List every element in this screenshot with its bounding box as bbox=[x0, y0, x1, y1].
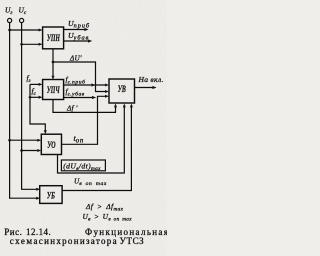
label Δf' bbox=[66, 105, 78, 113]
block УО bbox=[41, 134, 61, 154]
label ΔU' bbox=[69, 55, 82, 63]
wire Uс to УО input 2 bbox=[22, 149, 42, 152]
block УБ bbox=[40, 186, 62, 204]
junction on Uг bus at УПН input bbox=[8, 29, 11, 32]
wire Uс to УПН input 2 bbox=[22, 43, 43, 46]
svg-text:УТСЗ: УТСЗ bbox=[120, 236, 145, 246]
junction on Uс bus at УО input bbox=[20, 149, 23, 152]
wire Uг to УПН input 1 bbox=[10, 29, 43, 32]
wire fг.приб to УВ input 1 bbox=[64, 83, 109, 86]
wire УПН to УПЧ vertical bbox=[52, 49, 55, 80]
label Uприб bbox=[68, 19, 90, 29]
caption line 1 bbox=[4, 227, 169, 237]
svg-text:УО: УО bbox=[47, 140, 56, 151]
wire output Uприб (arrow stub) bbox=[64, 28, 89, 31]
label fг.убав bbox=[66, 88, 85, 98]
junction on Uг bus at УО input bbox=[8, 139, 11, 142]
label Uубав bbox=[68, 31, 89, 41]
svg-text:УБ: УБ bbox=[47, 190, 55, 201]
label condition Δf > Δf max bbox=[85, 202, 124, 213]
wire УБ output to УВ bottom input 3 bbox=[62, 103, 133, 190]
block УПН bbox=[43, 27, 64, 49]
wire output Uубав (arrow stub) bbox=[64, 39, 93, 42]
label fс bbox=[32, 88, 37, 98]
wire f line vertical (frequency taps down to УО top) bbox=[30, 84, 47, 134]
svg-text:УВ: УВ bbox=[118, 84, 126, 95]
label УО bbox=[47, 140, 56, 151]
label fг.приб bbox=[66, 76, 86, 86]
wire fс into УПЧ bbox=[30, 96, 43, 99]
wire Δf' from УПЧ bottom to УВ bottom input 1 bbox=[53, 100, 117, 113]
label condition Uв > Uв оп max bbox=[83, 212, 133, 223]
label Uв оп max bbox=[74, 178, 107, 188]
block УВ bbox=[109, 79, 135, 103]
wire УО bottom to Uв-оп-max line to УВ bottom input 2 bbox=[58, 103, 126, 173]
caption line 2 bbox=[10, 236, 145, 246]
wire output На вкл. bbox=[135, 86, 157, 89]
junction ΔU' tap bbox=[52, 61, 55, 64]
label УПЧ bbox=[47, 85, 60, 96]
label УВ bbox=[118, 84, 126, 95]
svg-text:На вкл.: На вкл. bbox=[138, 75, 164, 84]
wire Uг to УО input 1 bbox=[10, 139, 42, 142]
svg-text:УПЧ: УПЧ bbox=[47, 85, 60, 96]
terminal Uс bbox=[20, 18, 24, 22]
block уставка (dUв/dt)max bbox=[61, 160, 105, 171]
block УПЧ bbox=[43, 80, 64, 100]
wire fг into УПЧ bbox=[30, 83, 43, 86]
junction on Uс bus at УПН input bbox=[20, 43, 23, 46]
wire bus Uс (second vertical, down to УБ input 1) bbox=[22, 23, 41, 191]
svg-text:УПН: УПН bbox=[47, 33, 61, 44]
label Uг bbox=[5, 6, 12, 16]
label Uс bbox=[19, 6, 27, 16]
label На вкл. bbox=[138, 75, 164, 84]
svg-text:Δf ′: Δf ′ bbox=[66, 105, 78, 113]
label (dUв/dt)max bbox=[63, 162, 101, 172]
svg-text:синхронизатора: синхронизатора bbox=[39, 236, 118, 246]
wire fг.убав (arrow stub) bbox=[64, 96, 97, 99]
wire tоп from УО to УВ input 3 bbox=[62, 95, 110, 145]
terminal Uг bbox=[8, 18, 12, 22]
junction fс tap bbox=[29, 96, 32, 99]
label tоп bbox=[74, 134, 85, 145]
svg-text:ΔU′: ΔU′ bbox=[69, 55, 82, 63]
label fг bbox=[27, 75, 31, 85]
svg-text:схема: схема bbox=[10, 236, 39, 246]
label УБ bbox=[47, 190, 55, 201]
wire bus Uг (left vertical, down to УБ input 2) bbox=[10, 23, 41, 200]
label УПН bbox=[47, 33, 61, 44]
wire ΔU' to УВ input 2 bbox=[53, 62, 109, 93]
